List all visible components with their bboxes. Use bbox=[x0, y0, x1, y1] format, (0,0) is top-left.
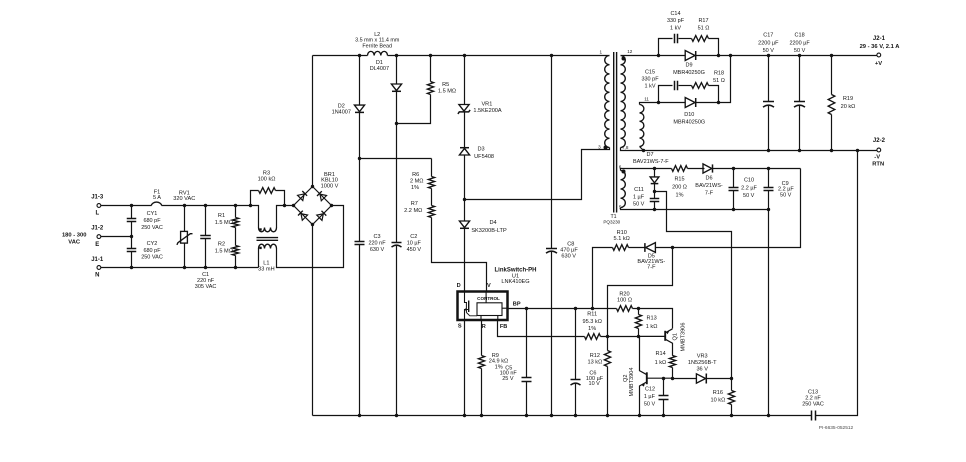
junction S ground bbox=[463, 414, 466, 417]
wire D1 anode bbox=[396, 56, 398, 85]
wire E line bbox=[101, 236, 132, 238]
svg-text:1.5KE200A: 1.5KE200A bbox=[473, 108, 502, 114]
label C11 bbox=[634, 187, 644, 193]
svg-text:PQ3230: PQ3230 bbox=[603, 219, 620, 224]
wire C2 bottom bbox=[396, 246, 398, 416]
polarity dot pin12 bbox=[622, 57, 626, 61]
label D3 bbox=[478, 146, 485, 152]
label C13 bbox=[802, 389, 824, 407]
pin S bbox=[458, 323, 462, 329]
transformer T1 pin11 winding bbox=[640, 105, 644, 147]
wire C5 top bbox=[526, 309, 528, 378]
capacitor CY1 bbox=[127, 219, 137, 222]
svg-text:50 V: 50 V bbox=[743, 193, 755, 199]
junction C8 top bbox=[550, 54, 553, 57]
junction snub1 left bbox=[657, 54, 660, 57]
wire L line left bbox=[101, 205, 152, 207]
svg-text:2.2 MΩ: 2.2 MΩ bbox=[404, 208, 422, 214]
node B+ junction bbox=[358, 157, 361, 160]
svg-text:450 V: 450 V bbox=[407, 247, 422, 253]
resistor R6 bbox=[428, 177, 434, 189]
pin R bbox=[482, 324, 486, 330]
wire pin78 lead bbox=[621, 148, 644, 151]
wire Q2 base to VR3 bbox=[673, 378, 697, 380]
svg-text:7-F: 7-F bbox=[647, 264, 656, 270]
wire clamp to pin3 bbox=[465, 150, 609, 200]
junction D1 bottom bbox=[395, 122, 398, 125]
label R14 value bbox=[655, 360, 667, 366]
junction BR1 right vertex bbox=[330, 204, 333, 207]
svg-text:R7: R7 bbox=[411, 201, 418, 207]
label BR1 bbox=[321, 172, 339, 189]
svg-text:10 µF: 10 µF bbox=[407, 241, 422, 247]
U1 R internal bbox=[480, 316, 482, 321]
svg-text:R13: R13 bbox=[646, 315, 656, 321]
wire top bus left bbox=[313, 55, 368, 57]
label C6 bbox=[589, 371, 596, 377]
resistor R11 bbox=[585, 334, 601, 340]
svg-text:1%: 1% bbox=[676, 193, 684, 199]
junction C10 bottom bbox=[732, 208, 735, 211]
polarity mark L1 bottom bbox=[259, 247, 261, 249]
junction C6 tap bbox=[574, 307, 577, 310]
label Q1 bbox=[672, 333, 678, 340]
wire snub2 right riser bbox=[709, 86, 719, 103]
U1 V pin internal bbox=[485, 292, 487, 303]
resistor R1 bbox=[232, 218, 238, 228]
label T1 part bbox=[603, 219, 620, 224]
svg-text:680 pF: 680 pF bbox=[143, 248, 161, 254]
junction BR1 top vertex bbox=[311, 185, 314, 188]
svg-text:50 V: 50 V bbox=[633, 201, 645, 207]
svg-text:50 V: 50 V bbox=[780, 192, 792, 198]
junction VR3 node bbox=[730, 377, 733, 380]
terminal J1-3 bbox=[97, 204, 101, 208]
label C6 value bbox=[586, 376, 604, 382]
label D4 value bbox=[471, 228, 507, 234]
svg-text:2.2 nF: 2.2 nF bbox=[805, 396, 821, 402]
pin 5 bbox=[619, 204, 622, 209]
wire R13 bottom lead bbox=[638, 329, 640, 337]
svg-text:D: D bbox=[457, 283, 461, 289]
wire C1 bottom bbox=[205, 239, 207, 268]
svg-text:D10: D10 bbox=[684, 112, 694, 118]
svg-text:1000 V: 1000 V bbox=[321, 183, 339, 189]
wire C10 lower bbox=[733, 191, 735, 210]
label R1 bbox=[218, 213, 225, 219]
resistor R5 bbox=[427, 82, 433, 95]
wire pin5 lead bbox=[621, 208, 625, 210]
label C14 bbox=[667, 11, 685, 32]
svg-text:MBR40250G: MBR40250G bbox=[673, 119, 705, 125]
junction R13 top bbox=[637, 307, 640, 310]
label C12 bbox=[645, 387, 655, 393]
svg-text:J1-1: J1-1 bbox=[91, 257, 104, 263]
wire D1 cathode bbox=[396, 92, 398, 243]
label N bbox=[95, 273, 99, 279]
junction Q2 emitter ground bbox=[638, 414, 641, 417]
svg-text:11: 11 bbox=[644, 96, 649, 101]
svg-text:S: S bbox=[458, 323, 462, 329]
wire BP rail right bbox=[633, 309, 673, 329]
wire bias tap bbox=[655, 192, 732, 379]
junction R16 ground bbox=[730, 414, 733, 417]
wire D5 to corner bbox=[656, 169, 801, 248]
wire VR1-D3 bbox=[464, 113, 466, 149]
wire RV1 top bbox=[184, 206, 186, 232]
junction D10 join bbox=[729, 54, 732, 57]
svg-text:220 nF: 220 nF bbox=[368, 241, 386, 247]
wire R16 top bbox=[731, 379, 733, 391]
junction R19 top bbox=[830, 54, 833, 57]
svg-text:R15: R15 bbox=[674, 177, 684, 183]
capacitor C9 bbox=[764, 188, 774, 191]
wire bias rail a bbox=[625, 168, 672, 170]
wire R3 left lead bbox=[251, 191, 259, 206]
label D6 bbox=[695, 175, 723, 196]
diode D10 bbox=[685, 98, 696, 108]
wire R1-R2 bbox=[235, 228, 237, 246]
svg-text:680 pF: 680 pF bbox=[143, 218, 161, 224]
wire D5 tap bbox=[608, 248, 673, 337]
wire R3 right lead bbox=[276, 191, 285, 206]
transformer T1 primary winding bbox=[605, 56, 610, 148]
resistor R17 bbox=[692, 36, 709, 42]
label C11 value bbox=[633, 194, 645, 200]
wire D7 cathode bbox=[654, 184, 656, 199]
wire C6 bottom bbox=[575, 384, 577, 416]
wire R12 top bbox=[607, 337, 609, 351]
svg-text:R12: R12 bbox=[590, 353, 600, 359]
label U1 ref bbox=[512, 274, 519, 280]
transformer T1 core bbox=[614, 52, 617, 213]
junction R1 top bbox=[234, 204, 237, 207]
svg-text:C8: C8 bbox=[567, 242, 574, 248]
label C9 bbox=[782, 181, 789, 187]
label RV1 bbox=[173, 190, 195, 202]
capacitor C6 bbox=[571, 380, 581, 386]
label C10 value bbox=[741, 185, 757, 191]
wire R13 top lead bbox=[638, 309, 640, 315]
terminal J2-2 bbox=[877, 148, 881, 152]
pin 6 bbox=[619, 164, 622, 169]
label R20 bbox=[617, 292, 632, 304]
wire pin11 top lead bbox=[640, 103, 645, 105]
svg-text:5.1 kΩ: 5.1 kΩ bbox=[614, 236, 630, 242]
svg-text:10 kΩ: 10 kΩ bbox=[711, 398, 726, 404]
svg-text:10 V: 10 V bbox=[589, 381, 601, 387]
diode D9 bbox=[685, 51, 696, 61]
wire FB line bbox=[498, 321, 585, 337]
label R2 bbox=[218, 241, 225, 247]
svg-text:R16: R16 bbox=[713, 390, 723, 396]
wire pin11 bottom lead bbox=[640, 147, 644, 151]
wire C12 top bbox=[663, 379, 665, 396]
label C10 bbox=[744, 178, 754, 184]
capacitor C11 bbox=[650, 199, 660, 202]
wire L1 top-left lead bbox=[251, 206, 259, 228]
svg-text:J2-1: J2-1 bbox=[873, 36, 886, 42]
label J1-2 bbox=[91, 226, 104, 232]
wire C9 upper bbox=[768, 169, 770, 188]
label L1 bbox=[258, 261, 274, 273]
capacitor C13 bbox=[812, 411, 816, 421]
junction R14-Q2 node bbox=[671, 377, 674, 380]
wire C18 lower bbox=[799, 106, 801, 151]
svg-text:Q1: Q1 bbox=[672, 333, 678, 340]
svg-text:1N5256B-T: 1N5256B-T bbox=[688, 360, 717, 366]
junction C9 top bbox=[767, 167, 770, 170]
capacitor C2 bbox=[392, 243, 402, 248]
junction R9 ground bbox=[480, 414, 483, 417]
junction C17 top bbox=[767, 54, 770, 57]
label R18 bbox=[713, 70, 725, 84]
label C6 volt bbox=[589, 381, 601, 387]
label J1-3 bbox=[91, 194, 104, 200]
wire CY column upper bbox=[131, 206, 133, 219]
junction R10 tap bbox=[591, 307, 594, 310]
junction C1 top bbox=[204, 204, 207, 207]
junction divider bbox=[606, 335, 609, 338]
wire C15-R18 bbox=[679, 85, 692, 87]
junction C18 bottom bbox=[798, 149, 801, 152]
diode D5 bbox=[645, 243, 656, 253]
resistor R7 bbox=[428, 206, 434, 218]
capacitor C10 bbox=[729, 188, 739, 191]
varistor RV1 bbox=[177, 231, 193, 245]
wire R16 bottom bbox=[731, 405, 733, 416]
wire R5 bottom lead bbox=[397, 95, 431, 124]
resistor R10 bbox=[613, 245, 629, 251]
label R11 bbox=[582, 312, 601, 333]
junction pin78 node bbox=[642, 149, 645, 152]
svg-text:1.5 MΩ: 1.5 MΩ bbox=[438, 88, 456, 94]
svg-text:1 kΩ: 1 kΩ bbox=[655, 360, 667, 366]
svg-text:C14: C14 bbox=[670, 11, 680, 17]
op-amp U1 outline bbox=[458, 292, 508, 321]
capacitor C14 bbox=[675, 34, 678, 44]
diode D2 bbox=[354, 105, 364, 112]
svg-text:5: 5 bbox=[619, 204, 622, 209]
pin 7,8 bbox=[622, 145, 629, 150]
junction C5 tap bbox=[525, 307, 528, 310]
svg-text:C18: C18 bbox=[795, 33, 805, 39]
label C18 bbox=[789, 33, 810, 55]
label R15 bbox=[672, 177, 687, 199]
label J1-1 bbox=[91, 257, 104, 263]
svg-text:LNK410EG: LNK410EG bbox=[501, 279, 529, 285]
junction BR1 bottom vertex bbox=[311, 223, 314, 226]
wire CY column mid bbox=[131, 222, 133, 249]
wire C14-R17 bbox=[679, 38, 692, 40]
inductor L1 top winding bbox=[259, 228, 277, 232]
svg-text:1 µF: 1 µF bbox=[633, 194, 645, 200]
polarity mark L1 top bbox=[259, 228, 261, 230]
svg-text:BAV21WS-: BAV21WS- bbox=[695, 183, 723, 189]
wire C6 top bbox=[575, 309, 577, 380]
svg-text:R5: R5 bbox=[442, 82, 449, 88]
label CY1 bbox=[141, 211, 163, 231]
label R14 bbox=[655, 351, 665, 357]
junction C17 bottom bbox=[767, 149, 770, 152]
svg-text:1%: 1% bbox=[495, 364, 503, 370]
label R9 tol bbox=[495, 364, 503, 370]
wire R9 bottom bbox=[481, 369, 483, 416]
svg-text:FB: FB bbox=[500, 324, 507, 330]
wire C11 bottom bbox=[654, 202, 656, 210]
terminal J1-1 bbox=[97, 266, 101, 270]
label L bbox=[95, 211, 99, 217]
label C9 value bbox=[778, 187, 794, 193]
wire D7 anode bbox=[654, 169, 656, 177]
label L2 bbox=[355, 32, 400, 50]
label R13 bbox=[646, 315, 658, 330]
label U1 name bbox=[494, 267, 536, 273]
resistor R20 bbox=[617, 306, 633, 312]
label R3 bbox=[258, 171, 276, 183]
svg-text:C12: C12 bbox=[645, 387, 655, 393]
svg-text:320 VAC: 320 VAC bbox=[173, 196, 195, 202]
label J2-1 bbox=[873, 36, 886, 42]
label C12 volt bbox=[644, 401, 656, 407]
svg-text:DL4007: DL4007 bbox=[370, 66, 389, 72]
wire C9 lower bbox=[768, 191, 770, 210]
label R10 bbox=[614, 230, 630, 242]
junction return ground bbox=[767, 414, 770, 417]
svg-text:L: L bbox=[95, 211, 99, 217]
svg-text:N: N bbox=[95, 273, 99, 279]
svg-text:CY2: CY2 bbox=[147, 241, 158, 247]
svg-text:180 - 300: 180 - 300 bbox=[62, 232, 87, 238]
label D10 bbox=[673, 112, 705, 126]
wire N line bbox=[101, 267, 259, 269]
svg-text:51 Ω: 51 Ω bbox=[713, 78, 725, 84]
svg-text:1N4007: 1N4007 bbox=[332, 110, 351, 116]
capacitor C3 bbox=[355, 242, 365, 245]
svg-text:200 Ω: 200 Ω bbox=[672, 185, 687, 191]
wire VR1 top lead bbox=[464, 56, 466, 105]
pin 11 bbox=[644, 96, 649, 101]
junction C6 ground bbox=[574, 414, 577, 417]
diode D4 bbox=[459, 221, 469, 228]
svg-text:C3: C3 bbox=[373, 234, 380, 240]
diode D3 bbox=[459, 148, 469, 155]
svg-text:+V: +V bbox=[875, 61, 882, 67]
transistor Q2 bbox=[640, 336, 673, 415]
transformer T1 secondary winding bbox=[621, 56, 626, 148]
resistor R12 bbox=[604, 351, 610, 367]
terminal J2-1 bbox=[877, 53, 881, 57]
diode BR1 bottom-right bbox=[317, 211, 327, 221]
label D2 bbox=[332, 103, 351, 115]
svg-text:MMBT3906: MMBT3906 bbox=[680, 323, 686, 352]
wire S to ground bbox=[464, 321, 466, 416]
svg-text:UF5408: UF5408 bbox=[474, 154, 494, 160]
wire C17 upper bbox=[768, 56, 770, 102]
svg-text:R6: R6 bbox=[412, 172, 419, 178]
svg-text:630 V: 630 V bbox=[370, 247, 385, 253]
svg-text:6: 6 bbox=[619, 164, 622, 169]
svg-text:C11: C11 bbox=[634, 187, 644, 193]
label C17 bbox=[758, 33, 779, 55]
svg-text:29 - 36 V, 2.1 A: 29 - 36 V, 2.1 A bbox=[860, 44, 901, 50]
svg-text:D2: D2 bbox=[338, 103, 345, 109]
diode BR1 top-left bbox=[298, 191, 308, 201]
svg-text:R17: R17 bbox=[698, 18, 708, 24]
svg-text:1.5 MΩ: 1.5 MΩ bbox=[215, 220, 233, 226]
svg-text:7-F: 7-F bbox=[705, 190, 714, 196]
label Q2 bbox=[623, 374, 629, 381]
svg-text:33 mH: 33 mH bbox=[258, 267, 274, 273]
junction D5 node bbox=[671, 246, 674, 249]
wire bias rail b bbox=[688, 168, 705, 170]
label D7 part bbox=[633, 159, 669, 165]
svg-text:100 Ω: 100 Ω bbox=[617, 298, 632, 304]
wire BR1 diamond bbox=[294, 187, 332, 225]
diode D7 bbox=[650, 177, 659, 184]
wire R12 bottom bbox=[607, 367, 609, 416]
label R17 bbox=[698, 18, 710, 32]
wire C5 bottom bbox=[526, 382, 528, 416]
svg-text:E: E bbox=[95, 242, 99, 248]
label C1 bbox=[195, 272, 217, 290]
wire ground bus bbox=[313, 415, 812, 417]
svg-text:7,8: 7,8 bbox=[622, 145, 629, 150]
wire D4 to drain bbox=[464, 229, 466, 292]
junction C11 node bbox=[653, 190, 656, 193]
pin 12 bbox=[627, 49, 633, 54]
label R6 value bbox=[410, 178, 424, 184]
wire L1 top-right lead bbox=[277, 206, 294, 228]
svg-text:25 V: 25 V bbox=[502, 376, 514, 382]
label F1 5A bbox=[153, 189, 161, 201]
junction C12 ground bbox=[662, 414, 665, 417]
label CY2 bbox=[141, 241, 163, 261]
junction Q1 base node bbox=[637, 335, 640, 338]
wire C3 bottom bbox=[359, 245, 361, 416]
zener VR3 bbox=[696, 374, 707, 383]
label R7 value bbox=[404, 208, 422, 214]
junction D7 top bbox=[653, 167, 656, 170]
svg-text:3: 3 bbox=[598, 145, 601, 150]
svg-text:95.3 kΩ: 95.3 kΩ bbox=[582, 319, 601, 325]
label C8 value bbox=[560, 248, 578, 254]
wire +V rail bbox=[696, 55, 877, 57]
svg-text:R: R bbox=[482, 324, 486, 330]
inductor L1 bottom winding bbox=[259, 244, 277, 248]
junction C3 bottom bbox=[358, 414, 361, 417]
svg-text:250 VAC: 250 VAC bbox=[141, 225, 163, 231]
label D5 bbox=[637, 253, 665, 270]
pin BP bbox=[513, 301, 521, 307]
diode D1 bbox=[391, 84, 401, 91]
svg-text:R18: R18 bbox=[714, 70, 724, 76]
diode BR1 bottom-left bbox=[298, 210, 308, 220]
wire snub1 left riser bbox=[659, 39, 673, 56]
svg-text:CY1: CY1 bbox=[147, 211, 158, 217]
label T1 bbox=[610, 214, 616, 220]
transformer T1 aux winding bbox=[621, 171, 626, 208]
label D7 bbox=[646, 152, 653, 158]
label C11 volt bbox=[633, 201, 645, 207]
junction C5 ground bbox=[525, 414, 528, 417]
label D1 bbox=[370, 60, 389, 72]
wire R7 to V pin bbox=[432, 218, 487, 292]
svg-text:-V: -V bbox=[874, 155, 880, 161]
wire C1 top bbox=[205, 206, 207, 236]
label R6 tol bbox=[411, 185, 419, 191]
label Q1 part bbox=[680, 323, 686, 352]
